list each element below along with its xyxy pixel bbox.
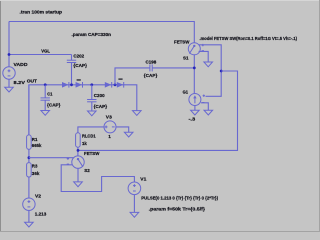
svg-text:.model FETSW SW(Ron=0.1 Roff=1: .model FETSW SW(Ron=0.1 Roff=1G Vt=.5 Vh… xyxy=(200,36,298,41)
ground under V2 xyxy=(25,222,34,227)
ground right of diodes xyxy=(133,111,142,116)
resistor R1 xyxy=(27,85,42,149)
junction D3/D4 xyxy=(114,83,117,86)
voltage source V1 xyxy=(128,177,218,213)
diode D1 xyxy=(62,82,69,88)
switch S2 xyxy=(67,151,100,173)
wire G1 bottom xyxy=(194,106,196,111)
svg-text:RLCD1: RLCD1 xyxy=(82,133,96,138)
wire divider to S2 xyxy=(29,157,74,159)
svg-text:FETSW: FETSW xyxy=(84,151,100,156)
diode D3 xyxy=(105,82,112,88)
wire S2 -ctrl to V1 xyxy=(61,165,134,192)
svg-text:V1: V1 xyxy=(140,177,146,182)
svg-text:C202: C202 xyxy=(73,54,84,59)
svg-text:1: 1 xyxy=(108,134,111,139)
svg-text:V3: V3 xyxy=(106,115,112,120)
capacitor C198 xyxy=(144,59,195,78)
svg-text:-.3: -.3 xyxy=(189,117,196,122)
wire R3 to V2 xyxy=(28,177,30,198)
junction C202/diodes xyxy=(70,83,73,86)
voltage source V3 xyxy=(104,115,116,140)
wire VGL rail xyxy=(9,54,72,56)
voltage source V2 xyxy=(23,194,47,223)
svg-text:VADD: VADD xyxy=(14,62,29,67)
svg-text:PULSE(0 1.213 0 {Tr} {Tr} {Tr}: PULSE(0 1.213 0 {Tr} {Tr} {Tr} 0 {2*Tr}) xyxy=(141,196,218,201)
switch S1 xyxy=(174,40,204,61)
frame edges xyxy=(0,0,2,232)
svg-text:.param CAP=330n: .param CAP=330n xyxy=(72,32,112,37)
voltage source VADD xyxy=(71,55,73,61)
junction C198/S1/G1 xyxy=(193,67,196,70)
svg-text:S2: S2 xyxy=(84,168,90,173)
svg-text:FETSW: FETSW xyxy=(174,40,190,45)
resistor RLCD1 xyxy=(76,133,96,147)
svg-text:1k: 1k xyxy=(82,141,87,146)
ground G1 ctrl xyxy=(204,110,213,115)
svg-text:R1: R1 xyxy=(32,137,38,142)
svg-text:8.2V: 8.2V xyxy=(14,80,27,85)
ground under S2 xyxy=(74,182,83,187)
ground under VADD xyxy=(5,87,14,92)
junction S2 top xyxy=(77,149,80,152)
capacitor C200 xyxy=(87,85,107,111)
junction divider xyxy=(28,156,31,159)
wire top rail xyxy=(9,22,194,43)
wire left vertical xyxy=(8,22,10,68)
ground under C1 xyxy=(41,111,50,116)
ground under V1 xyxy=(130,212,139,217)
junction C200 xyxy=(90,83,93,86)
wire V3 left to RLCD1 xyxy=(78,127,104,133)
svg-text:VGL: VGL xyxy=(41,49,50,54)
wire S2 bottom xyxy=(77,168,79,182)
wire G1 -ctrl xyxy=(201,103,208,110)
ground S1 ctrl xyxy=(204,62,213,67)
svg-text:{CAP}: {CAP} xyxy=(73,63,87,68)
svg-text:C200: C200 xyxy=(94,93,105,98)
wire V3 right to ground xyxy=(116,127,129,132)
wire S1 -ctrl xyxy=(199,51,209,62)
ground under C200 xyxy=(88,111,97,116)
svg-text:36k: 36k xyxy=(32,171,40,176)
svg-text:S1: S1 xyxy=(183,55,189,60)
svg-text:665k: 665k xyxy=(32,143,42,148)
wire D3D4 junction to C198 xyxy=(115,68,150,85)
wire OUT rail xyxy=(29,85,137,135)
svg-text:V2: V2 xyxy=(35,194,41,199)
svg-text:R3: R3 xyxy=(32,163,38,168)
svg-text:.param f=50k Tr={0.5/f}: .param f=50k Tr={0.5/f} xyxy=(149,207,206,212)
svg-text:{CAP}: {CAP} xyxy=(94,104,108,109)
junction ctrl branch xyxy=(220,70,223,73)
svg-text:C198: C198 xyxy=(146,59,157,64)
junction C1 xyxy=(44,83,47,86)
svg-text:{CAP}: {CAP} xyxy=(47,103,61,108)
svg-text:G1: G1 xyxy=(183,90,189,95)
wire S1 +ctrl xyxy=(199,45,222,97)
svg-text:.tran 100m startup: .tran 100m startup xyxy=(20,9,63,14)
diode D2 xyxy=(76,79,83,88)
diode D4 xyxy=(117,78,124,87)
svg-text:C1: C1 xyxy=(47,92,53,97)
wire S1 bottom to G1 xyxy=(193,55,195,94)
ground G1 xyxy=(191,110,200,115)
svg-text:1.213: 1.213 xyxy=(35,212,47,217)
ground V3 xyxy=(124,132,133,137)
capacitor C202 xyxy=(67,54,87,85)
current source G1 xyxy=(183,90,205,122)
wire RLCD1 to S2 xyxy=(77,147,79,156)
svg-text:OUT: OUT xyxy=(27,79,37,84)
voltage source VADD xyxy=(3,62,28,87)
junction VGL/VADD xyxy=(8,53,11,56)
wire R1 to R3 xyxy=(28,149,30,162)
svg-text:{CAP}: {CAP} xyxy=(144,73,158,78)
capacitor C1 xyxy=(41,85,61,111)
wire ctrl to S2 node xyxy=(78,71,238,150)
resistor R3 xyxy=(27,163,40,177)
